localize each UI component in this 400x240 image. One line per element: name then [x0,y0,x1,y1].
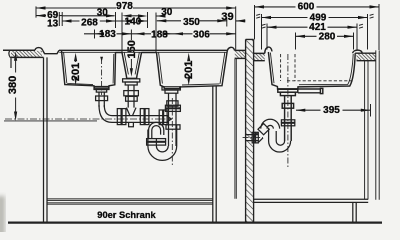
left cabinet rails [47,199,213,204]
380 dim line [15,55,17,116]
horizontal drain pipe [112,116,168,123]
wall outline [246,39,254,222]
201 basin1 arrows [74,53,77,62]
sink drainer recess [43,50,59,53]
extension ticks group [36,4,379,117]
380 bottom extension line [4,120,97,122]
183 arrows [95,32,105,35]
counter bottom left [12,56,43,58]
dim 600 line [255,6,380,8]
svg-text:30: 30 [161,7,173,18]
counter bottom right of sink [235,57,246,59]
trap union bars [147,139,166,142]
tick x59.5 and x62 (13 dim) [58,12,60,26]
cabinets and floor [8,50,382,222]
wide nut above tee [165,105,180,108]
right counter left piece [254,53,265,60]
69 arrow [36,14,46,17]
svg-text:600: 600 [298,1,315,12]
stub centerline [243,137,263,139]
dim 978 line [36,7,236,9]
sink rim underside line [59,51,227,53]
svg-text:306: 306 [193,29,210,40]
divider 1 top [116,52,123,54]
svg-text:150: 150 [126,40,138,58]
elbow to horizontal pipe [99,105,112,122]
dim 421 line [267,26,357,28]
svg-text:13: 13 [47,19,59,30]
tick x235.7 long [235,6,237,50]
dim row B chain line [36,15,165,17]
svg-text:380: 380 [7,76,19,94]
trap U-bend [269,141,291,152]
tick for 395 [370,104,372,117]
svg-text:183: 183 [151,29,168,40]
tick x122 long to divider1 [121,13,123,53]
basin 2 outline [122,53,142,79]
tick x115.5 [115,12,117,28]
150 arrow [130,68,133,77]
counter hatch left [11,51,42,57]
svg-text:30: 30 [97,7,109,18]
right tailpipe nut [282,103,293,108]
30 left arrows [106,14,116,17]
basin2 drain flange [123,79,140,82]
39 arrow [236,19,246,22]
right sink right rim [353,50,363,53]
dimension lines group [36,7,379,110]
equal marks 499 [256,14,373,18]
tick x156 long to divider2 [155,13,157,53]
right counter right piece [355,53,376,61]
280 arrows [296,35,306,38]
floor [8,221,382,223]
wall hatch [246,39,254,222]
right tailpipe [285,96,292,141]
201 basin3 arrows [187,53,190,62]
right trap [243,119,295,152]
306 arrows [174,32,184,35]
dim row D line (183/183/306) [84,33,236,35]
basin3 drain flange [162,87,180,90]
right sink bowl outline [268,52,355,89]
side outlet pipe [298,89,321,93]
scan smudge bottom left [0,196,5,236]
basin2 tee funnel [126,108,136,116]
left cabinet left leg [44,57,48,222]
tick x226.8 [226,19,228,27]
vertical dimension lines [4,55,189,121]
basin1 tailpipe nut [96,96,108,101]
basin 1 outline [62,51,116,89]
right counter edge / side panel [376,50,379,199]
drain centerline [287,54,289,168]
svg-text:978: 978 [116,1,133,12]
trap centerline [171,98,173,167]
trap union bars on tailpipe [281,120,294,123]
counter top left [3,49,35,51]
svg-text:90er Schrank: 90er Schrank [97,210,156,220]
pipe centerline [5,118,172,120]
basin1 tailpipe [99,92,104,107]
basin3 tailpipe [169,93,177,146]
right block ticks [254,5,256,39]
svg-text:183: 183 [99,29,116,40]
wide nut below tee [166,125,180,129]
dim 395 line [296,109,370,111]
basin 3 inner wall [159,53,225,86]
right cabinet inner side [365,61,368,199]
divider 2 top [142,52,157,54]
svg-text:268: 268 [81,17,98,28]
left cabinet right leg [213,86,216,222]
basin 3 outline [157,52,228,88]
right counter and sink [254,47,376,168]
svg-text:280: 280 [319,31,336,42]
svg-text:201: 201 [183,61,195,79]
421 arrows [267,26,277,29]
45 deg pipe [253,133,263,142]
sink rim line [59,49,227,51]
wall [246,39,254,222]
395 arrows [296,109,306,112]
sink front rim bump [35,48,43,51]
sink back rim bump [227,47,235,52]
30 right arrows [138,14,148,17]
left cabinet end panel [235,58,236,198]
dimension texts [7,1,340,220]
counter hatch right of sink [235,51,246,59]
tick x147.5 [147,12,149,28]
tee lower boss [128,123,134,127]
basin3 tailpipe nut [167,101,178,106]
basin1 drain flange [94,87,109,90]
diamond union nut [258,124,269,135]
wall outlet stub [246,135,258,141]
svg-text:395: 395 [323,105,340,116]
dim 280 line [296,35,354,37]
350 arrows [157,19,167,22]
978 arrows [36,6,46,9]
basin2 tailpipe nuts [124,91,139,96]
600 arrows [255,5,265,8]
trap U-bend [148,146,177,160]
268 arrows [62,19,72,22]
right drain flange [278,89,298,92]
arrows group [14,5,379,121]
right sink bowl inner [270,53,353,85]
201 basin3 dim line [188,57,190,80]
counter left edge profile [3,50,12,68]
counter top right of sink [235,49,246,51]
380 arrows [14,51,17,61]
union nuts on horizontal pipe [117,109,121,125]
trap left arm [148,125,177,146]
right sink left rim bump [265,47,272,53]
svg-text:140: 140 [125,16,142,27]
small arrow basin1 center [100,57,103,62]
right cabinet bottom [254,199,369,202]
trap overbend arch [261,119,280,128]
drain1 centerline [101,58,103,95]
equal marks 421 [262,24,363,28]
tick x94.5 [94,30,96,39]
tick x36 [35,6,37,17]
tick x131.5 (continues as 150 dim) [130,30,132,41]
svg-text:39: 39 [221,11,233,23]
150 dim line [130,59,132,70]
bowl hidden dashed contour [281,54,352,81]
basin2 tailpipe [128,85,134,108]
svg-text:201: 201 [70,63,82,81]
trap overbend arch [149,122,164,138]
basin 1 inner wall [64,52,114,84]
left counter and sink [3,47,246,88]
right cabinet leg [353,202,356,222]
trap left arm [269,128,277,141]
left plumbing [5,58,180,167]
basin 2 inner walls [124,53,139,75]
stub flange bars [252,132,255,143]
140 arrows [122,19,132,22]
499 arrows [262,16,272,19]
201 basin1 dim line [75,57,77,81]
dim 499 line [262,17,368,19]
svg-text:350: 350 [183,17,200,28]
dim row C line (268/140/350/39) [62,20,245,22]
